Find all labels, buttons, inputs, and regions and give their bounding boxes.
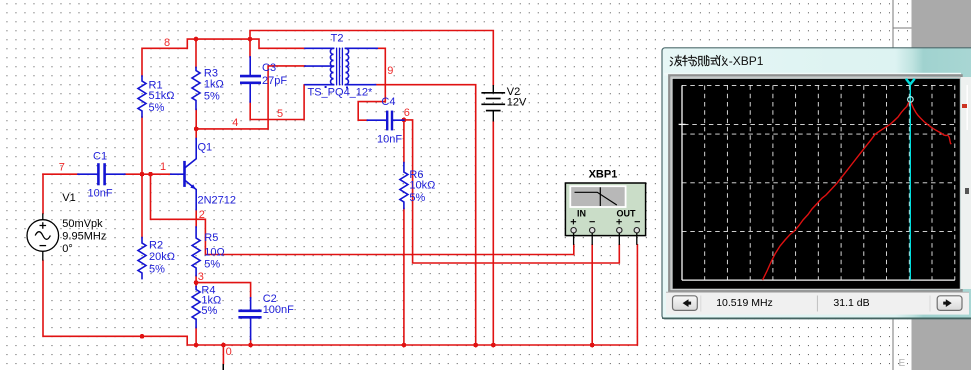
svg-text:10kΩ: 10kΩ [409,179,435,191]
transistor Q1 [171,139,196,210]
svg-text:10Ω: 10Ω [204,247,224,259]
bode window bottom edge [662,317,971,319]
svg-text:OUT: OUT [617,209,637,219]
svg-text:0: 0 [226,346,232,358]
svg-text:5%: 5% [204,90,220,102]
svg-text:10.519 MHz: 10.519 MHz [716,297,773,309]
svg-text:R2: R2 [149,240,163,252]
wire secondary bottom to ground rail [376,85,476,345]
transformer T2 [305,48,377,88]
bode left button [673,296,698,311]
svg-text:1: 1 [160,161,166,173]
svg-text:7: 7 [59,162,65,174]
instrument XBP1 box [565,183,645,245]
ground [222,364,224,370]
wire node4 to transformer mid tap [196,66,305,129]
svg-text:2N2712: 2N2712 [198,195,237,207]
svg-text:C3: C3 [262,62,276,74]
wire node1 to R2 top [141,174,143,237]
svg-text:50mVpk: 50mVpk [62,218,103,230]
glyph te [682,55,694,66]
wire V2 minus to ground rail [492,122,494,346]
svg-text:3: 3 [198,271,204,283]
wire node3 R5 bottom stub [195,276,197,283]
junction node1 probe [148,172,153,177]
svg-text:51kΩ: 51kΩ [149,90,175,102]
wire node6 C4 right to bode OUT plus [404,120,619,263]
svg-text:5%: 5% [409,192,425,204]
bode plot grid [679,85,955,280]
wire net8 to transformer primary top [250,39,305,48]
resistor R2 [138,238,146,279]
resistor R6 [400,163,408,209]
svg-text:5%: 5% [201,305,217,317]
bode plot frame [664,73,962,291]
svg-text:C1: C1 [93,151,107,163]
svg-text:5%: 5% [149,102,165,114]
svg-text:12V: 12V [507,96,527,108]
svg-text:V1: V1 [62,192,75,204]
junction rail IN minus [590,343,595,348]
svg-text:TS_PQ4_12*: TS_PQ4_12* [308,87,374,99]
wire bode IN minus to ground rail [591,245,593,345]
svg-text:20kΩ: 20kΩ [149,251,175,263]
junction R2 bottom [140,334,145,339]
svg-text:5: 5 [277,108,283,120]
svg-text:2: 2 [199,209,205,221]
glyph bo [670,55,682,66]
wire node7 V1 to C1 [43,173,78,175]
svg-text:E: E [899,358,906,369]
wire node2 emitter to R5 [195,210,197,227]
svg-text:XBP1: XBP1 [589,169,618,181]
bode right button [937,296,962,311]
resistor R4 [192,287,200,328]
wire node1 C1 to Q1 base [125,173,171,175]
svg-text:5%: 5% [149,264,165,276]
glyph yi [718,55,727,65]
junction node4 collector [194,126,199,131]
wire node3 to C2 top [196,283,251,298]
wire C2 bottom to ground rail [250,339,252,345]
wire node9 secondary top to C4 left [358,48,385,120]
junction node3 [194,280,199,285]
bode curve [763,100,952,280]
wire node4 R3 bottom stub [195,109,197,129]
sheet border frame [893,0,912,370]
capacitor C4 [367,112,404,129]
wire node7 V1 top lead [42,174,44,213]
svg-text:0°: 0° [62,243,73,255]
svg-text:Q1: Q1 [198,142,213,154]
svg-text:-XBP1: -XBP1 [729,54,764,68]
svg-text:9: 9 [387,65,393,77]
svg-text:6: 6 [404,107,410,119]
wire node1 branch to bode IN plus [151,174,574,254]
svg-text:10nF: 10nF [377,133,402,145]
wire ground rail V1 minus to bode OUT minus [43,245,637,345]
junction rail R4 [194,343,199,348]
wire net8 C3 top stub [249,39,251,57]
svg-text:IN: IN [577,209,586,219]
junction node8 C3 [248,37,253,42]
wire node6 to R6 top [403,120,405,163]
resistor R3 [192,67,200,109]
svg-text:C4: C4 [381,96,395,108]
junction rail secondary [473,343,478,348]
svg-text:100nF: 100nF [263,304,294,316]
svg-text:4: 4 [232,117,238,129]
marker line [684,123,955,125]
svg-text:31.1 dB: 31.1 dB [833,297,869,309]
wire net8 R3 top stub [195,39,197,67]
capacitor C1 [78,165,125,185]
junction rail C2 [248,343,253,348]
bode right panel sliver [961,77,971,289]
svg-text:27pF: 27pF [262,75,287,87]
resistor R5 [192,227,200,276]
junction node1 divider [140,172,145,177]
glyph ce [694,55,706,65]
bode window frame [662,48,971,319]
AC source V1 [27,213,59,260]
svg-text:9.95MHz: 9.95MHz [62,231,106,243]
svg-text:R5: R5 [204,232,218,244]
wire node0 ground stub [222,345,224,364]
wire net8 R1 top to junction [142,39,250,76]
wire R1 bottom to node1 [141,117,143,174]
wire node5 C3 bottom to transformer primary bottom [250,85,304,120]
junction rail R6 [402,343,407,348]
battery V2 [481,85,505,122]
capacitor C2 [240,298,261,340]
junction rail ground [221,343,226,348]
wire net8 top rail to V2 plus [250,31,493,86]
resistor R1 [138,76,146,117]
glyph shi [707,55,719,65]
bode cursor [906,79,915,280]
junction node8 R3 [194,37,199,42]
wire R6 bottom to ground rail [403,208,405,345]
wire node4 collector stub [195,129,197,139]
wire R4 bottom to ground rail [195,328,197,345]
svg-text:10nF: 10nF [88,188,113,200]
svg-text:T2: T2 [331,32,344,44]
svg-text:8: 8 [164,37,170,49]
bode window title [670,54,764,68]
capacitor C3 [241,57,259,102]
junction rail V2 [491,343,496,348]
junction node6 [402,118,407,123]
svg-text:1kΩ: 1kΩ [204,79,224,91]
bode bottom bar [666,292,969,315]
wire node3 R4 top stub [195,283,197,287]
svg-text:5%: 5% [204,259,220,271]
